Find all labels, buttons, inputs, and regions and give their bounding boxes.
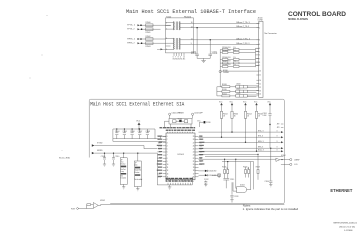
wire TPRX- <box>140 42 166 44</box>
sheet number block bottom right <box>334 223 358 233</box>
svg-text:C1514: C1514 <box>265 181 270 183</box>
svg-text:C1505: C1505 <box>123 131 128 133</box>
svg-text:P20*: P20* <box>71 208 76 210</box>
svg-text:13: 13 <box>259 90 261 92</box>
crystal circuit: terminal circle right <box>192 113 203 116</box>
svg-text:C1515: C1515 <box>230 179 234 181</box>
svg-text:6: 6 <box>259 44 260 46</box>
node TPRX+ input label <box>127 38 140 40</box>
wire bundle row4 <box>199 147 281 149</box>
svg-text:11: 11 <box>259 83 261 85</box>
capacitor C1505 <box>123 129 128 139</box>
connector J1500 <box>258 18 264 98</box>
svg-text:R1501: R1501 <box>146 32 151 34</box>
svg-text:19: 19 <box>193 167 195 169</box>
resistor R1519 vertical <box>256 154 260 180</box>
svg-text:C1509: C1509 <box>101 156 106 158</box>
svg-text:11: 11 <box>191 39 193 41</box>
wires gate input verticals <box>233 159 254 191</box>
svg-text:TPRX- 2: TPRX- 2 <box>127 43 136 45</box>
svg-text:10Base-T_TX+ 3: 10Base-T_TX+ 3 <box>236 22 250 24</box>
svg-text:ETX+ 3: ETX+ 3 <box>258 131 263 133</box>
svg-text:ECD+ 3: ECD+ 3 <box>258 150 264 152</box>
svg-text:10Base-T_RX- 3: 10Base-T_RX- 3 <box>236 43 249 45</box>
svg-text:JP3: JP3 <box>277 127 280 129</box>
svg-text:U1502: U1502 <box>100 200 105 202</box>
jumper box JP1501 rows <box>135 163 143 181</box>
svg-text:18: 18 <box>193 170 195 172</box>
resistor network vertical bus <box>219 50 221 74</box>
IC U1501 top pin name row <box>160 126 197 132</box>
svg-text:R1505 49.9: R1505 49.9 <box>222 50 230 52</box>
svg-text:7: 7 <box>167 155 168 157</box>
frame of Ethernet SIA section <box>89 99 284 204</box>
wire 10Base-T TX- to connector <box>194 27 259 29</box>
resistor R1504 row <box>220 47 255 50</box>
svg-text:11 12 13 14 15 16 17 18 19: 11 12 13 14 15 16 17 18 19 <box>166 181 194 183</box>
svg-text:2: 2 <box>259 27 260 29</box>
svg-text:1: 1 <box>166 22 167 24</box>
node TPTX+ input label <box>127 24 140 26</box>
svg-text:1. Ignore indicates that the p: 1. Ignore indicates that the part is not… <box>243 207 299 211</box>
wire cap commons <box>197 58 210 60</box>
svg-text:6: 6 <box>173 57 174 59</box>
svg-text:1: 1 <box>259 23 260 25</box>
resistor R1502 <box>146 36 154 40</box>
resistor R1516 vertical <box>226 161 228 178</box>
chassis ground terminal E1500 <box>219 70 230 87</box>
IC U1501 bottom pin stubs <box>168 183 191 185</box>
svg-text:11: 11 <box>167 167 169 169</box>
svg-text:J-1/2066: J-1/2066 <box>344 230 353 232</box>
power VCC pull-up chain 5 <box>254 101 263 151</box>
buffer gate U1504 <box>276 155 286 161</box>
IC U1501 body <box>166 133 195 180</box>
svg-text:4: 4 <box>180 57 181 59</box>
resistor R1505 row <box>220 50 255 53</box>
svg-text:ETXD: ETXD <box>97 142 103 144</box>
wire bundle row9 <box>222 161 254 163</box>
wire gate output long <box>98 204 284 205</box>
crystal Y1500 <box>178 118 183 122</box>
svg-text:8: 8 <box>178 57 179 59</box>
svg-text:4: 4 <box>167 145 168 147</box>
svg-text:3: 3 <box>166 38 167 40</box>
capacitor C1503 in crystal box <box>184 120 188 123</box>
power VCC pull-up chain 3 <box>243 101 252 143</box>
svg-text:R1503: R1503 <box>146 46 151 48</box>
resistor R1500 <box>146 22 154 26</box>
svg-text:1K: 1K <box>247 115 249 117</box>
svg-text:7: 7 <box>175 57 176 59</box>
svg-text:ERX+ 3: ERX+ 3 <box>258 141 264 143</box>
terminal circle LOL <box>290 163 298 166</box>
svg-text:9: 9 <box>167 161 168 163</box>
svg-text:C1513: C1513 <box>234 196 238 198</box>
svg-text:D1500 LED: D1500 LED <box>209 171 218 173</box>
svg-text:12: 12 <box>259 87 261 89</box>
svg-text:C1506: C1506 <box>130 131 135 133</box>
node junction dot RX+ <box>140 38 142 40</box>
resistor R1515 vertical <box>222 159 226 179</box>
svg-text:1K: 1K <box>234 115 236 117</box>
connector J1500 pin numbers <box>259 23 261 96</box>
svg-text:0.01UF: 0.01UF <box>212 53 218 55</box>
crystal network box <box>169 118 192 124</box>
svg-text:CONTROL BOARD: CONTROL BOARD <box>288 11 347 18</box>
svg-text:R1508 49.9: R1508 49.9 <box>222 64 230 66</box>
node TPTX- input label <box>127 28 140 30</box>
power VCC pull-up chain 1 <box>219 101 228 137</box>
svg-text:10: 10 <box>259 80 261 82</box>
wire bundle row2 <box>199 136 281 138</box>
label VCC near dark component <box>197 121 210 125</box>
resistor R1510 bottom row <box>217 88 259 92</box>
wire 10Base-T RX- to connector <box>194 43 259 45</box>
ground symbol C1509 <box>103 164 106 166</box>
node junction dot TX+ <box>140 24 142 26</box>
svg-text:SCC1_RXD: SCC1_RXD <box>59 158 71 160</box>
node ETXD input <box>92 142 103 146</box>
wire buffer output <box>280 159 290 161</box>
IC U1501 right pin stubs <box>195 137 199 177</box>
capacitor C1504 <box>115 129 120 139</box>
svg-text:6: 6 <box>167 152 168 154</box>
capacitor C1507 <box>138 129 143 139</box>
scan specks <box>30 15 63 151</box>
power VCC arrow bypass <box>136 120 141 129</box>
AND gate U1503 <box>237 185 247 193</box>
svg-text:TPTX+ 2: TPTX+ 2 <box>127 25 136 27</box>
svg-text:ETX- 3: ETX- 3 <box>258 136 263 138</box>
svg-text:ERX- 3: ERX- 3 <box>258 147 263 149</box>
svg-text:12: 12 <box>167 170 169 172</box>
T1500 internal pin wires right <box>180 23 194 44</box>
node TPRX- input label <box>127 42 140 44</box>
svg-text:C1512: C1512 <box>204 179 209 181</box>
capacitor C1509 <box>101 153 106 165</box>
wire 10Base-T TX+ to connector <box>194 22 259 24</box>
svg-text:T1500: T1500 <box>166 16 171 18</box>
capacitor C1513 below gate <box>230 182 238 199</box>
svg-text:L1500: L1500 <box>236 84 241 86</box>
svg-text:10: 10 <box>167 164 169 166</box>
wire bundle row3 <box>199 141 281 143</box>
IC U1501 top pin stubs <box>168 132 193 133</box>
jumper option box JP1501 <box>134 153 141 187</box>
transformer T1500 module box <box>166 16 194 53</box>
svg-text:MHTECHDWG-2046-01: MHTECHDWG-2046-01 <box>334 223 358 225</box>
svg-text:JP: JP <box>135 163 137 165</box>
wire bundle row7 <box>205 156 283 158</box>
ignore X mark <box>212 174 220 178</box>
svg-text:L1501: L1501 <box>236 88 241 90</box>
capacitor C1506 <box>130 129 135 139</box>
IC U1501 left pin labels <box>158 136 163 178</box>
wire TPTX- <box>140 28 161 30</box>
wire bottom ground bus <box>157 153 192 185</box>
svg-text:LINKF: LINKF <box>294 159 300 161</box>
svg-text:U1503: U1503 <box>240 185 245 187</box>
svg-text:5: 5 <box>166 49 167 51</box>
svg-text:7: 7 <box>259 58 260 60</box>
svg-text:16: 16 <box>191 22 193 24</box>
ground symbol C1510 <box>112 164 115 166</box>
transformer T2 core bars <box>176 38 177 50</box>
svg-text:Loop: Loop <box>121 171 124 173</box>
wire AND gate output <box>247 189 251 191</box>
svg-text:14: 14 <box>191 26 193 28</box>
wire 10Base-T RX+ to connector <box>194 39 259 41</box>
wire arrow into pin 5 <box>157 48 166 50</box>
svg-text:20: 20 <box>193 164 195 166</box>
off-page terminals right edge <box>277 131 278 152</box>
transformer T1 primary winding <box>173 22 176 31</box>
right edge jumper stubs <box>277 124 284 130</box>
svg-text:10Base-T_TX- 3: 10Base-T_TX- 3 <box>236 26 249 28</box>
resistor R1509 bottom row <box>217 84 259 88</box>
transformer T2 secondary winding <box>178 38 181 50</box>
ground symbol IC bottom <box>168 185 171 189</box>
svg-text:26: 26 <box>193 145 195 147</box>
svg-text:Single End: Single End <box>135 170 142 172</box>
svg-text:VCC: VCC <box>136 120 141 122</box>
wire bundle row5 <box>199 150 281 152</box>
connector J1500 pin stubs <box>256 23 258 93</box>
wire to LOL terminal <box>281 163 290 165</box>
resistor R1507 row <box>220 61 255 64</box>
svg-text:R1512: R1512 <box>223 114 228 116</box>
wire TPTX+ <box>140 24 161 26</box>
wire bottom-row left bus <box>216 87 218 96</box>
svg-text:28: 28 <box>193 139 195 141</box>
resistor R1503 <box>146 42 154 48</box>
svg-text:9: 9 <box>191 43 192 45</box>
svg-text:R1504 49.9: R1504 49.9 <box>222 47 230 49</box>
transformer T1 secondary winding <box>178 22 181 31</box>
IC U1501 inner pin numbers right column <box>193 136 195 178</box>
ground symbol JP1500 <box>122 184 125 189</box>
left pin label smudges <box>157 136 162 177</box>
svg-text:R1509: R1509 <box>222 84 227 86</box>
T1500 internal pin wires left <box>161 23 174 29</box>
bypass capacitor rail block <box>113 129 155 139</box>
crystal circuit: terminal circle left <box>169 113 180 116</box>
wire stubs from right bus extra rows <box>222 55 257 71</box>
svg-text:E1500: E1500 <box>223 70 228 72</box>
wire drop to C1501 <box>209 40 211 54</box>
resistor R1506 row <box>220 57 255 60</box>
svg-text:23: 23 <box>193 155 195 157</box>
svg-text:No Connector: No Connector <box>265 32 278 35</box>
svg-text:25: 25 <box>193 149 195 151</box>
svg-text:20MHZ: 20MHZ <box>179 112 184 114</box>
capacitor C1514 bottom right <box>265 148 273 185</box>
capacitor C1510 <box>112 153 119 165</box>
svg-text:PE-65434: PE-65434 <box>184 16 191 18</box>
T1500 pin numbers <box>166 22 192 51</box>
wire TPRX+ <box>140 38 166 40</box>
capacitor C1515 <box>223 179 234 189</box>
transformer T2 primary winding <box>173 38 176 50</box>
right pin label smudges <box>199 136 204 165</box>
T1500 bottom pin stubs <box>174 53 184 56</box>
svg-text:5: 5 <box>259 51 260 53</box>
node junction dot RX- <box>141 42 143 44</box>
svg-text:24: 24 <box>193 152 195 154</box>
wire VCC rail to IC <box>155 136 167 139</box>
svg-text:21: 21 <box>193 161 195 163</box>
svg-text:17: 17 <box>193 173 195 175</box>
IC top pin text smudge bands <box>160 127 196 131</box>
svg-text:5: 5 <box>167 149 168 151</box>
svg-text:4: 4 <box>259 48 260 50</box>
svg-text:R1514: R1514 <box>247 114 252 116</box>
IC U1501 bottom pin number row <box>166 177 195 183</box>
svg-text:U1501: U1501 <box>178 154 185 156</box>
svg-text:9: 9 <box>259 65 260 67</box>
power VCC pull-up chain 4 capacitor <box>263 101 272 148</box>
svg-text:5: 5 <box>259 55 260 57</box>
node junction dot TX- <box>141 28 143 30</box>
svg-text:29: 29 <box>193 136 195 138</box>
svg-text:R1511: R1511 <box>222 93 227 95</box>
svg-text:10Base-T_RX+ 3: 10Base-T_RX+ 3 <box>236 38 250 40</box>
svg-text:R1506 49.9: R1506 49.9 <box>222 57 230 59</box>
wires crystal to IC <box>165 115 193 127</box>
svg-text:C1516: C1516 <box>206 122 211 124</box>
svg-text:TPTX- 2: TPTX- 2 <box>127 29 135 31</box>
svg-text:Main Host SCC1 External Ethern: Main Host SCC1 External Ethernet SIA <box>90 102 185 108</box>
IC U1501 left pin stubs <box>163 137 166 177</box>
IC bottom pin text smudge bands <box>166 178 193 182</box>
capacitor C1508 <box>146 129 151 139</box>
svg-text:U1504: U1504 <box>281 155 286 157</box>
svg-text:1K: 1K <box>223 115 225 117</box>
svg-text:1K: 1K <box>258 115 260 117</box>
svg-text:JP2: JP2 <box>277 124 280 126</box>
terminal P20 input bottom left <box>71 208 93 211</box>
capacitor C1500 <box>191 51 199 58</box>
svg-text:16: 16 <box>193 176 195 178</box>
ground symbol C1513 <box>230 200 233 202</box>
svg-text:R1513: R1513 <box>234 114 239 116</box>
svg-text:2: 2 <box>166 29 167 31</box>
svg-text:R1507 49.9: R1507 49.9 <box>222 61 230 63</box>
svg-text:MODEL FLATMAN: MODEL FLATMAN <box>288 17 308 21</box>
transformer T1 core bars <box>176 22 177 31</box>
svg-text:C1504: C1504 <box>115 131 120 133</box>
node ERXD input <box>92 150 103 154</box>
svg-text:3: 3 <box>167 142 168 144</box>
svg-text:2: 2 <box>167 139 168 141</box>
svg-text:CON8: CON8 <box>258 20 263 22</box>
capacitor C1512 under IC right <box>204 179 209 187</box>
resistor R1508 row <box>220 64 255 67</box>
svg-text:C1507: C1507 <box>138 131 143 133</box>
buffer gate U1502 <box>93 200 105 208</box>
resistor R1517 vertical <box>243 166 247 177</box>
dark component right of crystal <box>204 121 206 123</box>
svg-text:3: 3 <box>259 40 260 42</box>
svg-text:LOL: LOL <box>294 164 298 166</box>
ground symbol caps <box>201 61 206 63</box>
svg-text:CHGND: CHGND <box>223 72 230 74</box>
svg-text:C1503 22PF: C1503 22PF <box>194 113 203 115</box>
svg-text:0.01UF: 0.01UF <box>191 53 197 55</box>
svg-text:R1502: R1502 <box>146 36 151 38</box>
wire ETXD <box>89 146 157 149</box>
notes text <box>243 204 299 211</box>
svg-text:12: 12 <box>183 57 185 59</box>
capacitor C1502 in crystal box <box>173 120 177 123</box>
IC U1501 right pin labels <box>199 136 203 166</box>
svg-text:ERXD: ERXD <box>97 150 103 152</box>
wire ERXD <box>94 152 157 154</box>
capacitor C1501 <box>208 51 217 58</box>
svg-text:TPRX+ 2: TPRX+ 2 <box>127 38 136 40</box>
svg-text:8: 8 <box>167 158 168 160</box>
node right bus of resistor network <box>256 48 259 67</box>
svg-text:11: 11 <box>259 75 261 77</box>
svg-text:1K: 1K <box>247 168 249 170</box>
wire rail2 to IC <box>113 139 166 142</box>
jumper option box JP1500 <box>120 153 127 185</box>
resistor R1511 bottom row <box>217 93 259 97</box>
junction dots bypass rail <box>116 128 140 129</box>
svg-text:C1508: C1508 <box>146 131 151 133</box>
svg-text:(Sheet 21 of 23): (Sheet 21 of 23) <box>339 226 355 229</box>
svg-text:C1510: C1510 <box>115 156 120 158</box>
jumper box JP1500 rows <box>121 159 126 179</box>
power VCC pull-up chain 2 <box>230 101 239 132</box>
svg-text:27: 27 <box>193 142 195 144</box>
svg-text:Y1500: Y1500 <box>178 118 183 120</box>
svg-text:L1502: L1502 <box>236 93 241 95</box>
resistor R1521 feedback <box>87 204 94 209</box>
svg-text:8: 8 <box>259 62 260 64</box>
T1500 bottom no-connect labels <box>173 57 186 61</box>
resistor R1518 vertical <box>247 167 249 178</box>
svg-text:1: 1 <box>167 136 168 138</box>
wire bundle row8 <box>199 158 277 160</box>
svg-text:R1500: R1500 <box>146 22 151 24</box>
resistor R1501 <box>146 28 154 34</box>
terminal circle LINKF <box>290 159 301 162</box>
svg-text:13: 13 <box>167 173 169 175</box>
diode D1500 <box>199 170 218 173</box>
ground symbol JP1501 <box>136 187 139 191</box>
wire bundle row6 <box>199 153 258 155</box>
T1500 internal pin wires left lower <box>165 39 173 50</box>
svg-text:JP: JP <box>121 159 123 161</box>
wire bundle SIA to frame edge row1 <box>199 131 281 133</box>
svg-text:22: 22 <box>193 158 195 160</box>
svg-text:C1511: C1511 <box>263 113 267 115</box>
ground symbol C1514 <box>269 185 272 187</box>
svg-text:ETHERNET: ETHERNET <box>330 188 352 193</box>
svg-text:10: 10 <box>259 71 261 73</box>
svg-text:R1510: R1510 <box>222 89 227 91</box>
IC U1501 inner pin numbers left column <box>167 136 169 178</box>
diode D1501 <box>199 174 218 177</box>
svg-text:0.1UF: 0.1UF <box>263 115 267 117</box>
svg-text:14: 14 <box>259 94 261 96</box>
svg-text:Main Host SCC1 External 10BASE: Main Host SCC1 External 10BASE-T Interfa… <box>126 8 256 15</box>
wire bundle labels <box>258 131 264 152</box>
wire drop to C1500 <box>196 28 198 54</box>
